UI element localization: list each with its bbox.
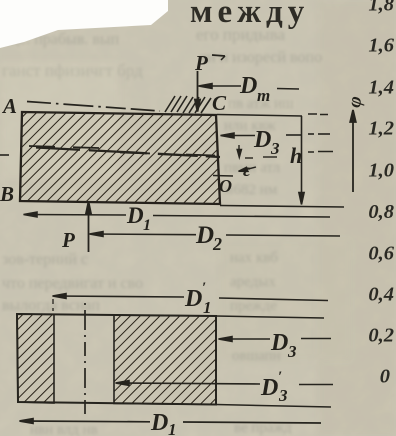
axis numbers column xyxy=(368,0,394,388)
svg-text:зов-терний с: зов-терний с xyxy=(2,251,88,268)
label P bottom xyxy=(61,228,75,252)
corner label A xyxy=(1,94,17,118)
label D'3 xyxy=(260,369,288,405)
svg-text:′: ′ xyxy=(278,369,282,385)
dash above O xyxy=(213,175,233,178)
dash-dot right of h xyxy=(308,151,333,154)
lower centerline vertical dash-dot xyxy=(84,303,86,416)
svg-text:0,6: 0,6 xyxy=(368,243,394,265)
phi axis arrow xyxy=(350,110,356,192)
lower block right hatched part xyxy=(114,315,216,405)
svg-text:0,4: 0,4 xyxy=(368,284,394,306)
force P top arrow xyxy=(195,71,200,112)
svg-text:D: D xyxy=(126,203,144,228)
svg-text:D: D xyxy=(184,286,202,312)
phi label (rotated) xyxy=(344,95,367,110)
dimension h vertical xyxy=(299,116,304,205)
initial-position dash-dot line A to C xyxy=(27,102,160,112)
dimension D1 upper xyxy=(24,212,331,217)
svg-text:3: 3 xyxy=(287,342,297,361)
force P top label xyxy=(194,51,225,75)
top edge extension line from C xyxy=(217,114,328,116)
bleed-through text xyxy=(2,25,322,436)
upper block xyxy=(20,112,220,204)
svg-text:D: D xyxy=(253,127,271,153)
lower block left hatched strip xyxy=(17,314,54,403)
dimension D'3 xyxy=(116,381,334,386)
svg-text:′: ′ xyxy=(202,280,206,296)
label D'1 xyxy=(184,280,212,317)
svg-text:P: P xyxy=(194,51,208,75)
svg-text:ти и изоресй вопо: ти и изоресй вопо xyxy=(200,49,322,66)
upper block centerline (heavy broken) xyxy=(0,146,277,158)
label D2 xyxy=(195,222,222,254)
svg-text:B: B xyxy=(0,182,14,206)
dimension D3 lower xyxy=(219,337,332,342)
svg-text:1: 1 xyxy=(203,298,212,317)
reaction force P bottom xyxy=(86,202,91,253)
dimension D'1 xyxy=(53,294,329,311)
dimension D2 xyxy=(90,232,341,237)
label D3 upper xyxy=(253,127,280,158)
corner label C xyxy=(212,91,227,115)
label h xyxy=(290,143,302,168)
svg-text:аредых: аредых xyxy=(230,274,276,290)
svg-text:3: 3 xyxy=(278,386,288,405)
svg-text:нах квб: нах квб xyxy=(230,250,278,266)
corner label B xyxy=(0,182,14,206)
svg-text:1,6: 1,6 xyxy=(368,35,394,57)
svg-text:C: C xyxy=(212,91,227,115)
lower top edge extension xyxy=(216,316,324,318)
label epsilon xyxy=(243,160,251,180)
corner label O xyxy=(219,176,232,196)
svg-text:прежде: прежде xyxy=(230,298,277,314)
svg-text:0,2: 0,2 xyxy=(368,325,394,347)
epsilon arrow xyxy=(237,145,256,171)
lower block outline xyxy=(17,314,216,405)
support hatching at C xyxy=(165,96,211,113)
svg-text:между: между xyxy=(190,0,309,30)
svg-text:ганст пфизичгт брд: ганст пфизичгт брд xyxy=(2,61,143,80)
svg-text:3: 3 xyxy=(270,139,280,158)
svg-text:1: 1 xyxy=(143,217,151,234)
lower bottom edge extension xyxy=(216,405,331,408)
label D1 upper xyxy=(126,203,151,234)
svg-text:1: 1 xyxy=(168,420,177,436)
svg-text:1,4: 1,4 xyxy=(368,77,394,99)
svg-text:0: 0 xyxy=(380,366,390,388)
svg-text:m: m xyxy=(257,86,270,105)
bottom edge extension long line xyxy=(220,206,344,208)
caption word MEZHDU xyxy=(190,0,309,30)
white crop corner top-left xyxy=(0,0,168,48)
dimension D3 upper xyxy=(221,133,331,138)
dimension D1 lower xyxy=(20,419,322,424)
svg-text:1,8: 1,8 xyxy=(368,0,394,16)
svg-text:D: D xyxy=(150,410,168,436)
svg-text:P: P xyxy=(61,228,75,252)
svg-text:D: D xyxy=(260,375,278,401)
svg-text:м682 нм: м682 нм xyxy=(224,182,278,198)
svg-text:нвн влд нв: нвн влд нв xyxy=(30,422,98,436)
svg-text:A: A xyxy=(1,94,17,118)
label D3 lower xyxy=(270,330,297,361)
label Dm xyxy=(239,73,270,105)
svg-text:0,8: 0,8 xyxy=(368,201,394,223)
svg-text:2: 2 xyxy=(212,234,222,254)
svg-text:h: h xyxy=(290,143,302,168)
svg-text:1,2: 1,2 xyxy=(368,118,394,140)
svg-text:D: D xyxy=(239,73,257,99)
svg-text:D: D xyxy=(195,222,214,249)
dimension Dm xyxy=(199,84,300,89)
svg-text:что передвигат и сво: что передвигат и сво xyxy=(2,275,143,292)
svg-text:D: D xyxy=(270,330,288,356)
svg-text:1,0: 1,0 xyxy=(368,160,394,182)
label D1 lower xyxy=(150,410,177,436)
svg-text:O: O xyxy=(219,176,232,196)
svg-text:ε: ε xyxy=(243,160,251,180)
